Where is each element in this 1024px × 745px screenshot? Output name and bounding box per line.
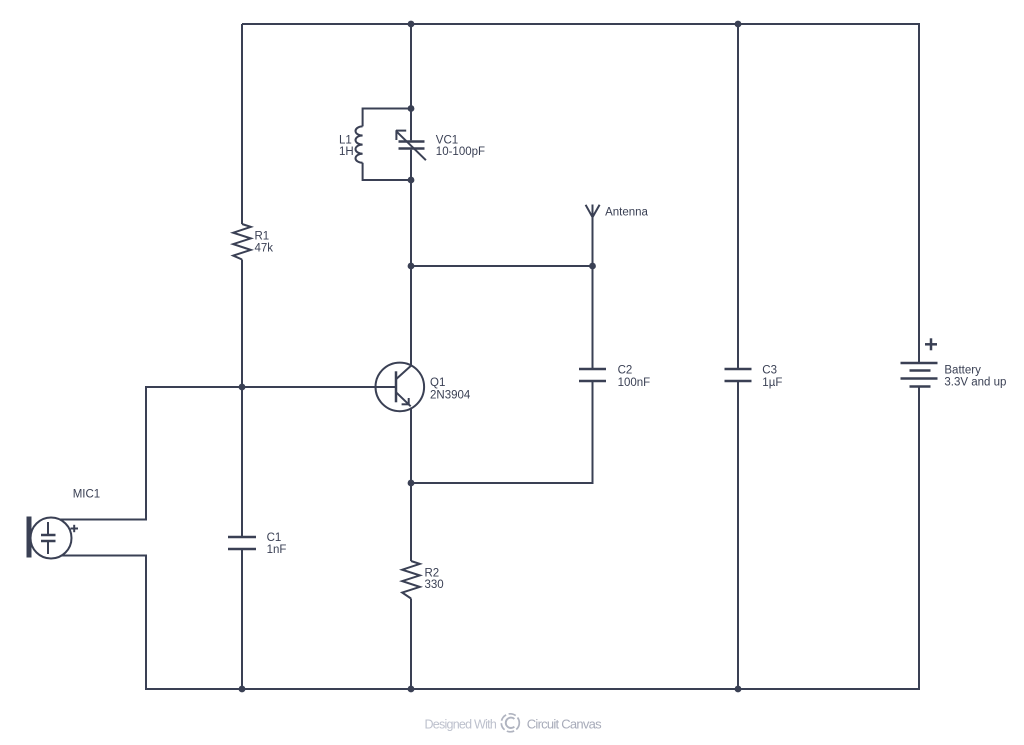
junction tank bottom — [408, 177, 415, 184]
svg-text:10-100pF: 10-100pF — [436, 146, 485, 158]
svg-text:Battery: Battery — [944, 365, 981, 377]
wire right rail lower (battery -) — [918, 387, 920, 691]
wire emitter junction to R2 — [410, 483, 412, 561]
capacitor C3 1uF — [725, 369, 752, 381]
junction base/R1/C1 — [239, 384, 246, 391]
svg-text:Antenna: Antenna — [605, 207, 648, 219]
resistor R2 330 — [402, 561, 420, 599]
junction tank top — [408, 105, 415, 112]
junction bottom rail / C1 — [239, 686, 246, 693]
wire C2 branch lower to emitter junction — [411, 382, 593, 483]
svg-text:C3: C3 — [762, 364, 777, 376]
capacitor C2 100nF — [579, 369, 606, 381]
wire collector junction to Q1 — [410, 266, 412, 365]
wire C2 branch upper — [592, 266, 594, 368]
wire right rail upper (battery +) — [918, 23, 920, 363]
svg-text:C1: C1 — [267, 532, 282, 544]
svg-text:1µF: 1µF — [762, 377, 782, 389]
svg-text:3.3V and up: 3.3V and up — [944, 377, 1006, 389]
antenna ANT — [586, 205, 600, 267]
variable capacitor VC1 10-100pF — [396, 130, 426, 160]
footer Designed With Circuit Canvas — [425, 714, 603, 732]
svg-text:1nF: 1nF — [267, 544, 287, 556]
wire R2 to bottom rail — [410, 599, 412, 690]
wire antenna branch horizontal — [411, 265, 593, 267]
transistor Q1 2N3904 — [376, 363, 425, 412]
wire VC1 to collector junction — [410, 150, 412, 266]
svg-text:Q1: Q1 — [430, 377, 445, 389]
svg-text:330: 330 — [425, 579, 444, 591]
svg-text:47k: 47k — [255, 242, 274, 254]
junction emitter/R2/C2 — [408, 480, 415, 487]
wire main vertical from top rail to tank — [410, 24, 412, 140]
wire C1 branch upper — [241, 387, 243, 536]
wire left rail lower + mic bottom lead — [62, 556, 147, 690]
wire left rail upper + base wire — [60, 387, 396, 520]
wire tank bottom link — [363, 163, 411, 180]
junction bottom rail / R2 — [408, 686, 415, 693]
wire bottom rail — [145, 688, 920, 690]
svg-text:R1: R1 — [255, 231, 270, 243]
svg-text:1H: 1H — [339, 146, 354, 158]
junction top rail / C3 — [735, 21, 742, 28]
wire tank top link — [363, 109, 411, 127]
junction collector/antenna — [408, 263, 415, 270]
battery BT1 3.3V and up — [901, 338, 938, 386]
junction antenna/C2 — [589, 263, 596, 270]
svg-text:VC1: VC1 — [436, 135, 458, 147]
svg-text:Circuit Canvas: Circuit Canvas — [527, 717, 602, 732]
wire R1 branch upper — [241, 24, 243, 224]
svg-text:L1: L1 — [339, 135, 352, 147]
wire R1 to base junction — [241, 260, 243, 388]
wire top rail — [242, 23, 920, 25]
svg-text:100nF: 100nF — [618, 377, 651, 389]
resistor R1 47k — [233, 224, 251, 260]
wire C3 branch lower — [737, 382, 739, 689]
junction bottom rail / C3 — [735, 686, 742, 693]
svg-text:MIC1: MIC1 — [73, 489, 100, 501]
inductor L1 1H — [356, 126, 363, 162]
svg-text:Designed With: Designed With — [425, 718, 497, 732]
svg-text:C2: C2 — [618, 364, 633, 376]
microphone MIC1 — [27, 517, 79, 559]
wire C1 branch lower — [241, 550, 243, 689]
svg-text:2N3904: 2N3904 — [430, 390, 471, 402]
wire C3 branch upper — [737, 24, 739, 368]
svg-text:R2: R2 — [425, 568, 440, 580]
junction top rail / tank — [408, 21, 415, 28]
wire emitter to junction — [410, 408, 412, 484]
capacitor C1 1nF — [228, 537, 256, 549]
